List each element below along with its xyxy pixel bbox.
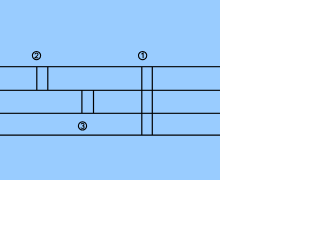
node 2 (circled digit 2 above branch 2) bbox=[32, 52, 40, 60]
wire L4 (bottom horizontal conductor) bbox=[0, 134, 220, 136]
wire: branch 1 right vertical (L1 to L4) bbox=[151, 67, 153, 135]
wire: branch 3 left vertical (L2 to L3) bbox=[81, 90, 83, 113]
wire: branch 1 left vertical (L1 to L4) bbox=[141, 67, 143, 135]
wire: branch 2 left vertical (L1 to L2) bbox=[36, 67, 38, 91]
wire L1 (top horizontal conductor) bbox=[0, 66, 220, 68]
node 3 (circled digit 3 below branch 3) bbox=[78, 122, 86, 130]
wire: branch 3 right vertical (L2 to L3) bbox=[93, 90, 95, 113]
wire: branch 2 right vertical (L1 to L2) bbox=[47, 67, 49, 91]
wire L2 (second horizontal conductor) bbox=[0, 89, 220, 91]
wire L3 (third horizontal conductor) bbox=[0, 112, 220, 114]
node 1 (circled digit 1 above branch 1) bbox=[139, 52, 147, 60]
